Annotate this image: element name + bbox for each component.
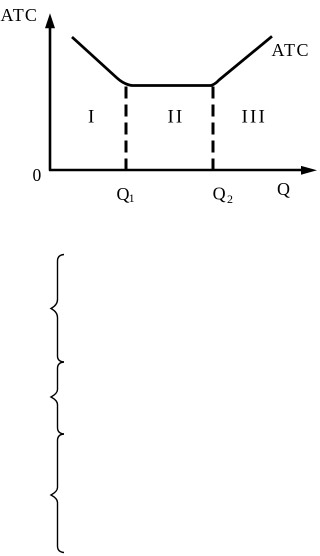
svg-text:Q: Q bbox=[213, 183, 226, 203]
svg-text:II: II bbox=[168, 107, 185, 128]
svg-text:ATC: ATC bbox=[1, 5, 39, 25]
svg-text:Q: Q bbox=[117, 184, 130, 204]
svg-text:1: 1 bbox=[129, 191, 135, 205]
svg-text:ATC: ATC bbox=[272, 40, 311, 60]
svg-text:Q: Q bbox=[277, 179, 290, 199]
svg-text:III: III bbox=[242, 107, 268, 128]
svg-text:2: 2 bbox=[227, 192, 233, 206]
svg-text:0: 0 bbox=[33, 165, 42, 185]
svg-text:I: I bbox=[88, 107, 94, 128]
